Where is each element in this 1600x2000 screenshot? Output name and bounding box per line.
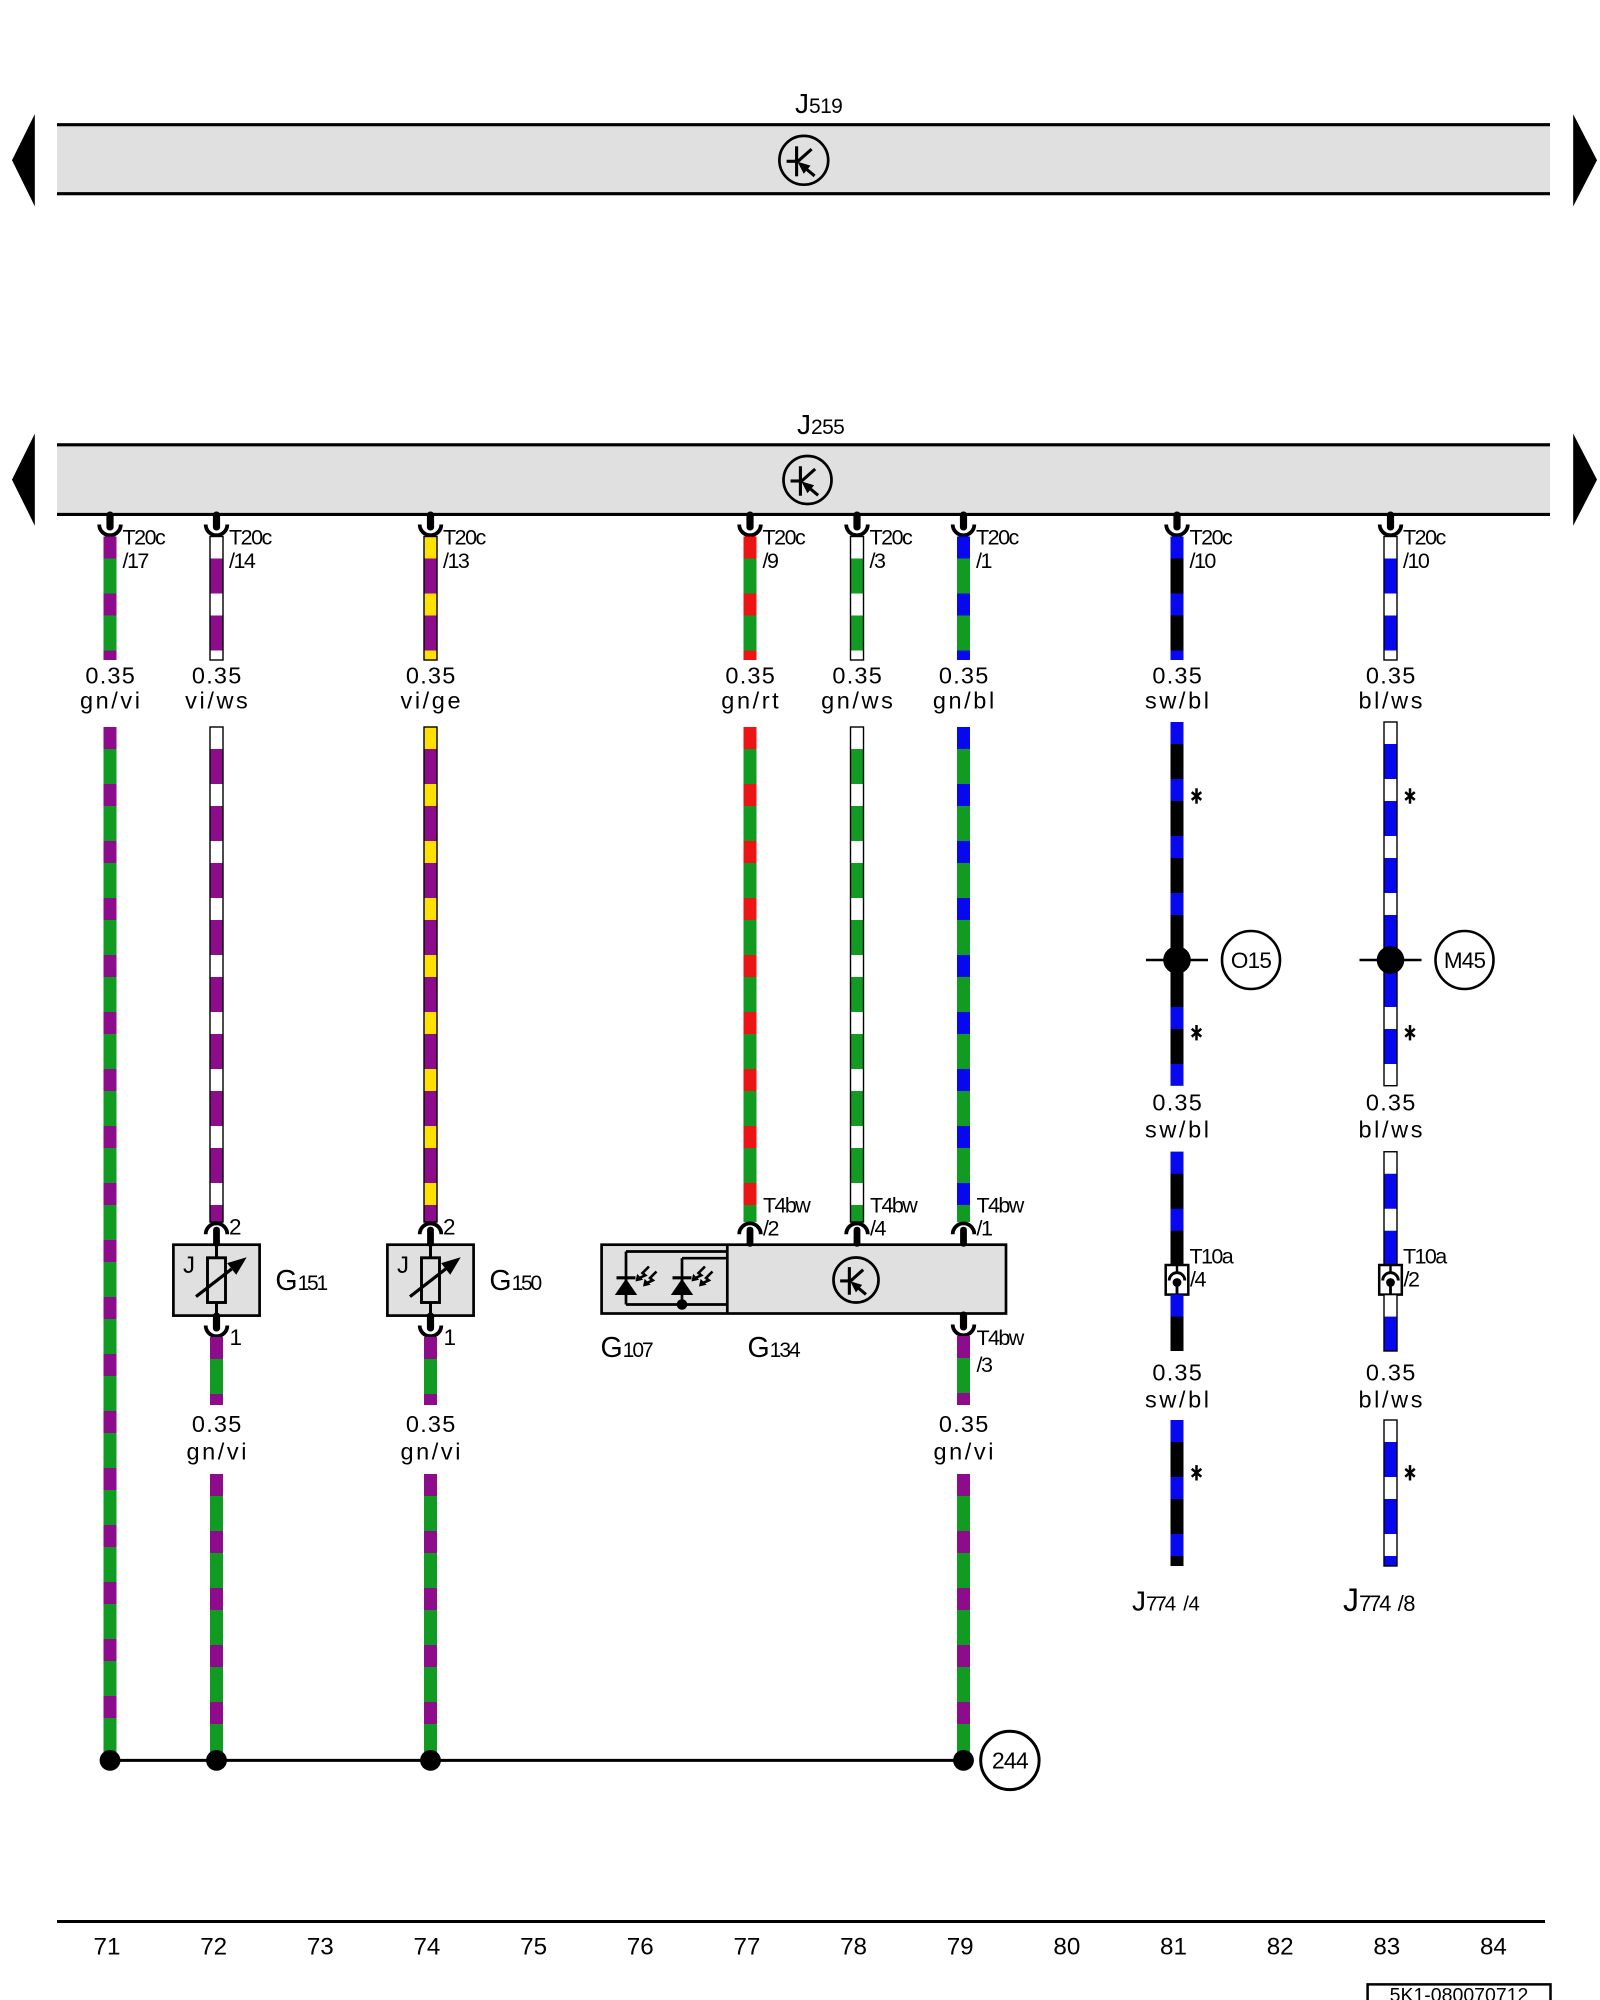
label G107 bbox=[601, 1332, 654, 1364]
label T20c/1 bbox=[976, 526, 1020, 573]
J255 internal electronics symbol bbox=[784, 456, 832, 504]
svg-text:gn/vi: gn/vi bbox=[186, 1439, 249, 1465]
svg-text:bl/ws: bl/ws bbox=[1359, 1116, 1426, 1142]
svg-text:80: 80 bbox=[1053, 1933, 1080, 1960]
connector T4bw/3 at G134 bottom bbox=[953, 1312, 975, 1336]
label J774 /8 bbox=[1343, 1582, 1415, 1618]
svg-text:/10: /10 bbox=[1190, 549, 1217, 573]
wire sw/bl below T10a/4 bbox=[1171, 1295, 1184, 1351]
diagram number box 5K1-080070712 bbox=[1368, 1984, 1551, 2000]
G107 interior wiring (photodiode network) bbox=[626, 1252, 727, 1305]
connector T20c/1 pin at J255 bbox=[953, 512, 975, 536]
connector T4bw/1 at G134 top bbox=[953, 1223, 975, 1246]
svg-text:2: 2 bbox=[443, 1215, 456, 1240]
svg-text:T4bw: T4bw bbox=[870, 1194, 918, 1218]
wire gn/vi G134-branch to ground node bbox=[957, 1474, 970, 1752]
svg-text:T20c: T20c bbox=[870, 526, 914, 550]
node designation circle M45 bbox=[1436, 931, 1494, 989]
label 0.35 bl/ws (below M45) bbox=[1359, 1360, 1426, 1413]
svg-text:vi/ws: vi/ws bbox=[185, 687, 250, 713]
wire sw/bl lowest segment to J774/4 bbox=[1171, 1420, 1184, 1566]
svg-text:84: 84 bbox=[1480, 1933, 1507, 1960]
svg-text:T20c: T20c bbox=[443, 526, 487, 550]
page continuation arrow left of J519 bbox=[12, 114, 35, 206]
label 0.35 gn/vi under G134 bbox=[933, 1411, 996, 1465]
svg-text:0.35: 0.35 bbox=[832, 663, 883, 689]
label T4bw/1 bbox=[977, 1194, 1025, 1241]
svg-text:0.35: 0.35 bbox=[1366, 1089, 1417, 1115]
svg-text:sw/bl: sw/bl bbox=[1145, 1387, 1212, 1413]
temperature sensor G151 (NTC in box) bbox=[173, 1245, 259, 1316]
svg-text:T20c: T20c bbox=[763, 526, 807, 550]
svg-text:bl/ws: bl/ws bbox=[1359, 687, 1426, 713]
label T20c/10 bbox=[1403, 526, 1447, 573]
junction dot on ground line bbox=[420, 1750, 441, 1771]
label 0.35 gn/vi under G150 bbox=[400, 1411, 463, 1465]
svg-text:/10: /10 bbox=[1403, 549, 1430, 573]
svg-text:/1: /1 bbox=[977, 1217, 992, 1241]
svg-text:0.35: 0.35 bbox=[85, 663, 136, 689]
wire bl/ws into T10a/2 bbox=[1384, 1152, 1397, 1265]
svg-text:J: J bbox=[397, 1252, 409, 1279]
svg-text:74: 74 bbox=[413, 1933, 440, 1960]
inline connector T10a/4 bbox=[1166, 1265, 1189, 1295]
svg-text:G151: G151 bbox=[275, 1265, 327, 1297]
svg-text:1: 1 bbox=[230, 1325, 243, 1350]
connector T20c/10 pin at J255 bbox=[1166, 512, 1188, 536]
junction dot on ground line bbox=[953, 1750, 974, 1771]
wire 0.35 vi/ge upper segment from T20c bbox=[424, 537, 437, 661]
svg-text:M45: M45 bbox=[1444, 948, 1486, 973]
svg-text:J255: J255 bbox=[797, 409, 844, 440]
asterisk footnote marks on wire bbox=[1192, 788, 1202, 1480]
wire vi/ws track72 run to G151 pin2 bbox=[210, 727, 223, 1222]
svg-text:T20c: T20c bbox=[1403, 526, 1447, 550]
svg-text:71: 71 bbox=[94, 1933, 121, 1960]
svg-text:0.35: 0.35 bbox=[192, 663, 243, 689]
svg-text:75: 75 bbox=[520, 1933, 547, 1960]
svg-text:gn/ws: gn/ws bbox=[821, 687, 895, 713]
label T20c/17 bbox=[123, 526, 167, 573]
wire 0.35 bl/ws upper segment from T20c bbox=[1384, 537, 1397, 661]
label T4bw/4 bbox=[870, 1194, 918, 1241]
label T20c/13 bbox=[443, 526, 487, 573]
G134 internal electronics symbol bbox=[834, 1258, 879, 1303]
svg-text:/1: /1 bbox=[976, 549, 991, 573]
wire 0.35 gn/rt upper segment from T20c bbox=[744, 537, 757, 661]
svg-text:/14: /14 bbox=[229, 549, 256, 573]
label T20c/10 bbox=[1190, 526, 1234, 573]
ground wire joining line (node 244) bbox=[110, 1759, 964, 1762]
svg-text:gn/vi: gn/vi bbox=[933, 1439, 996, 1465]
svg-text:J774/4: J774/4 bbox=[1132, 1586, 1199, 1617]
wire bl/ws track83 run below M45 bbox=[1384, 722, 1397, 1086]
page continuation arrow left of J255 bbox=[12, 434, 35, 526]
label J519 bbox=[795, 88, 842, 119]
svg-text:gn/vi: gn/vi bbox=[80, 687, 143, 713]
svg-text:244: 244 bbox=[992, 1748, 1029, 1774]
connector pin 2 of G151 bbox=[206, 1223, 228, 1246]
svg-text:/3: /3 bbox=[977, 1353, 993, 1377]
label 0.35 sw/bl (mid, above T10a/4) bbox=[1145, 1089, 1212, 1142]
svg-text:2: 2 bbox=[229, 1215, 242, 1240]
temperature sensor G150 (NTC in box) bbox=[387, 1245, 473, 1316]
label 0.35 gn/rt bbox=[721, 663, 781, 714]
connector pin 1 of G150 bbox=[420, 1313, 442, 1337]
svg-text:/17: /17 bbox=[123, 549, 149, 573]
svg-text:T10a: T10a bbox=[1190, 1244, 1234, 1268]
junction dot in G107 bbox=[677, 1299, 688, 1310]
wire gn/vi track71 long run to ground node bbox=[104, 727, 117, 1752]
connector T20c/9 pin at J255 bbox=[739, 512, 761, 536]
svg-text:/4: /4 bbox=[1190, 1268, 1206, 1292]
junction node O15 (wire splice) bbox=[1146, 946, 1208, 974]
svg-text:0.35: 0.35 bbox=[1152, 663, 1203, 689]
wire bl/ws lowest segment to J774/8 bbox=[1384, 1420, 1397, 1566]
label T4bw/2 bbox=[763, 1194, 811, 1241]
photodiode 1 of G107 bbox=[615, 1267, 657, 1296]
label G150 bbox=[489, 1265, 541, 1297]
wire gn/vi G150-branch to ground node bbox=[424, 1474, 437, 1752]
photodiode 2 of G107 bbox=[671, 1267, 713, 1296]
svg-text:bl/ws: bl/ws bbox=[1359, 1387, 1426, 1413]
svg-text:/4: /4 bbox=[870, 1217, 886, 1241]
label 0.35 gn/ws bbox=[821, 663, 895, 714]
connector T20c/14 pin at J255 bbox=[206, 512, 228, 536]
wire sw/bl into T10a/4 bbox=[1171, 1152, 1184, 1265]
label 0.35 sw/bl (below O15) bbox=[1145, 1360, 1212, 1413]
svg-text:gn/rt: gn/rt bbox=[721, 687, 781, 713]
connector T20c/17 pin at J255 bbox=[99, 512, 121, 536]
svg-text:J519: J519 bbox=[795, 88, 842, 119]
label T10a/4 bbox=[1190, 1244, 1234, 1291]
wire 0.35 gn/vi upper segment from T20c bbox=[104, 537, 117, 661]
track numbers 71-84 bbox=[94, 1933, 1507, 1960]
svg-text:G107: G107 bbox=[601, 1332, 654, 1364]
wire bl/ws below T10a/2 bbox=[1384, 1295, 1397, 1351]
label T4bw/3 bbox=[977, 1326, 1025, 1377]
svg-text:/3: /3 bbox=[870, 549, 886, 573]
connector T20c/10 pin at J255 bbox=[1380, 512, 1402, 536]
svg-text:0.35: 0.35 bbox=[192, 1411, 243, 1437]
svg-text:gn/vi: gn/vi bbox=[400, 1439, 463, 1465]
label 0.35 bl/ws (mid, above T10a/2) bbox=[1359, 1089, 1426, 1142]
wire gn/vi below G151 pin1 bbox=[210, 1337, 223, 1405]
svg-text:/2: /2 bbox=[1404, 1268, 1419, 1292]
svg-text:T20c: T20c bbox=[229, 526, 273, 550]
label 0.35 gn/vi under G151 bbox=[186, 1411, 249, 1465]
svg-text:76: 76 bbox=[627, 1933, 654, 1960]
svg-text:T4bw: T4bw bbox=[763, 1194, 811, 1218]
svg-text:gn/bl: gn/bl bbox=[933, 687, 997, 713]
svg-text:G134: G134 bbox=[748, 1332, 802, 1364]
svg-text:79: 79 bbox=[947, 1933, 974, 1960]
wire gn/ws track78 run to G134 pin T4bw/4 bbox=[851, 727, 864, 1222]
connector T20c/3 pin at J255 bbox=[846, 512, 868, 536]
label 0.35 gn/bl bbox=[933, 663, 997, 714]
label T20c/3 bbox=[870, 526, 914, 573]
control unit J255 Climatronic (gray bus bar) bbox=[57, 443, 1550, 516]
wire 0.35 gn/bl upper segment from T20c bbox=[957, 537, 970, 661]
label T10a/2 bbox=[1403, 1244, 1447, 1291]
control unit J519 (gray bus bar) bbox=[57, 123, 1550, 195]
svg-text:T20c: T20c bbox=[1190, 526, 1234, 550]
svg-text:78: 78 bbox=[840, 1933, 867, 1960]
svg-text:83: 83 bbox=[1373, 1933, 1400, 1960]
svg-text:sw/bl: sw/bl bbox=[1145, 1116, 1212, 1142]
svg-text:0.35: 0.35 bbox=[939, 1411, 990, 1437]
connector pin 2 of G150 bbox=[420, 1223, 442, 1246]
svg-text:vi/ge: vi/ge bbox=[400, 687, 463, 713]
svg-text:0.35: 0.35 bbox=[406, 663, 457, 689]
pin number 2 label of G151 bbox=[229, 1215, 242, 1240]
ground designation circle 244 bbox=[981, 1731, 1039, 1789]
svg-text:0.35: 0.35 bbox=[725, 663, 776, 689]
wire 0.35 gn/ws upper segment from T20c bbox=[851, 537, 864, 661]
svg-text:/9: /9 bbox=[763, 549, 778, 573]
svg-text:1: 1 bbox=[444, 1325, 457, 1350]
junction node M45 (wire splice) bbox=[1360, 946, 1422, 974]
svg-text:T4bw: T4bw bbox=[977, 1326, 1025, 1350]
wire gn/rt track77 run to G134 pin T4bw/2 bbox=[744, 727, 757, 1222]
svg-text:0.35: 0.35 bbox=[1152, 1360, 1203, 1386]
page continuation arrow right of J255 bbox=[1573, 434, 1597, 526]
svg-text:T4bw: T4bw bbox=[977, 1194, 1025, 1218]
junction dot on ground line bbox=[206, 1750, 227, 1771]
connector pin 1 of G151 bbox=[206, 1313, 228, 1337]
svg-text:77: 77 bbox=[733, 1933, 760, 1960]
svg-text:0.35: 0.35 bbox=[406, 1411, 457, 1437]
label 0.35 gn/vi bbox=[80, 663, 143, 714]
pin number 1 label of G151 bbox=[230, 1325, 243, 1350]
label T20c/9 bbox=[763, 526, 807, 573]
connector T4bw/4 at G134 top bbox=[846, 1223, 868, 1246]
svg-text:0.35: 0.35 bbox=[1152, 1089, 1203, 1115]
wire gn/vi below G134 T4bw/3 bbox=[957, 1336, 970, 1405]
svg-text:73: 73 bbox=[307, 1933, 334, 1960]
connector T4bw/2 at G134 top bbox=[739, 1223, 761, 1246]
inline connector T10a/2 bbox=[1379, 1265, 1402, 1295]
label 0.35 bl/ws bbox=[1359, 663, 1426, 714]
svg-text:T20c: T20c bbox=[976, 526, 1020, 550]
svg-text:5K1-080070712: 5K1-080070712 bbox=[1390, 1985, 1529, 2000]
label G134 bbox=[748, 1332, 802, 1364]
svg-text:0.35: 0.35 bbox=[1366, 1360, 1417, 1386]
track number scale line bbox=[57, 1920, 1545, 1923]
svg-text:81: 81 bbox=[1160, 1933, 1187, 1960]
svg-text:T10a: T10a bbox=[1403, 1244, 1447, 1268]
svg-text:72: 72 bbox=[200, 1933, 227, 1960]
J519 internal electronics symbol bbox=[779, 136, 828, 185]
label 0.35 vi/ws bbox=[185, 663, 250, 714]
svg-text:/2: /2 bbox=[763, 1217, 778, 1241]
svg-text:0.35: 0.35 bbox=[939, 663, 990, 689]
label J774 /4 bbox=[1132, 1586, 1199, 1617]
svg-text:J774/8: J774/8 bbox=[1343, 1582, 1415, 1618]
label 0.35 vi/ge bbox=[400, 663, 463, 714]
wire vi/ge track74 run to G150 pin2 bbox=[424, 727, 437, 1222]
svg-text:0.35: 0.35 bbox=[1366, 663, 1417, 689]
wire 0.35 vi/ws upper segment from T20c bbox=[210, 537, 223, 661]
wire 0.35 sw/bl upper segment from T20c bbox=[1171, 537, 1184, 661]
wire gn/vi below G150 pin1 bbox=[424, 1337, 437, 1405]
svg-text:/13: /13 bbox=[443, 549, 470, 573]
sunlight sensor G107 / G134 combined box (gray) bbox=[602, 1245, 1006, 1314]
node designation circle O15 bbox=[1222, 931, 1280, 989]
page continuation arrow right of J519 bbox=[1573, 114, 1597, 206]
junction dot on ground line bbox=[100, 1750, 121, 1771]
label 0.35 sw/bl bbox=[1145, 663, 1212, 714]
asterisk footnote marks on wire bbox=[1405, 788, 1415, 1480]
label T20c/14 bbox=[229, 526, 273, 573]
pin number 1 label of G150 bbox=[444, 1325, 457, 1350]
pin number 2 label of G150 bbox=[443, 1215, 456, 1240]
svg-text:sw/bl: sw/bl bbox=[1145, 687, 1212, 713]
svg-text:82: 82 bbox=[1267, 1933, 1294, 1960]
svg-text:J: J bbox=[183, 1252, 195, 1279]
wire gn/vi G151-branch to ground node bbox=[210, 1474, 223, 1752]
svg-text:G150: G150 bbox=[489, 1265, 541, 1297]
connector T20c/13 pin at J255 bbox=[420, 512, 442, 536]
label G151 bbox=[275, 1265, 327, 1297]
wire sw/bl track81 run below O15 bbox=[1171, 722, 1184, 1086]
wire gn/bl track79 run to G134 pin T4bw/1 bbox=[957, 727, 970, 1222]
label J255 bbox=[797, 409, 844, 440]
svg-text:O15: O15 bbox=[1231, 948, 1271, 973]
svg-text:T20c: T20c bbox=[123, 526, 167, 550]
